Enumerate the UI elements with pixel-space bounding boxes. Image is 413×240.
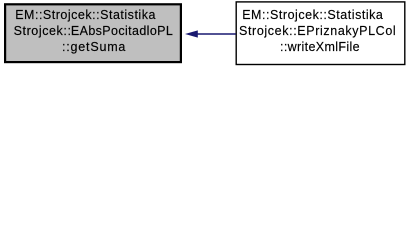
node: caller (white) EM::Strojcek::StatistikaStrojcek::EPriznakyPLCol::writeXmlFile xyxy=(236,2,405,65)
node: current function (grey) EM::Strojcek::StatistikaStrojcek::EAbsPocitadloPL::getSuma xyxy=(5,4,181,62)
arrowhead xyxy=(185,30,198,37)
label right line1 xyxy=(242,8,383,22)
label left line2 xyxy=(14,24,174,38)
label left line3 xyxy=(62,40,126,54)
label right line2 xyxy=(239,24,396,38)
label right line3 xyxy=(280,40,360,54)
label left line1 xyxy=(15,8,156,22)
wire xyxy=(197,33,236,35)
